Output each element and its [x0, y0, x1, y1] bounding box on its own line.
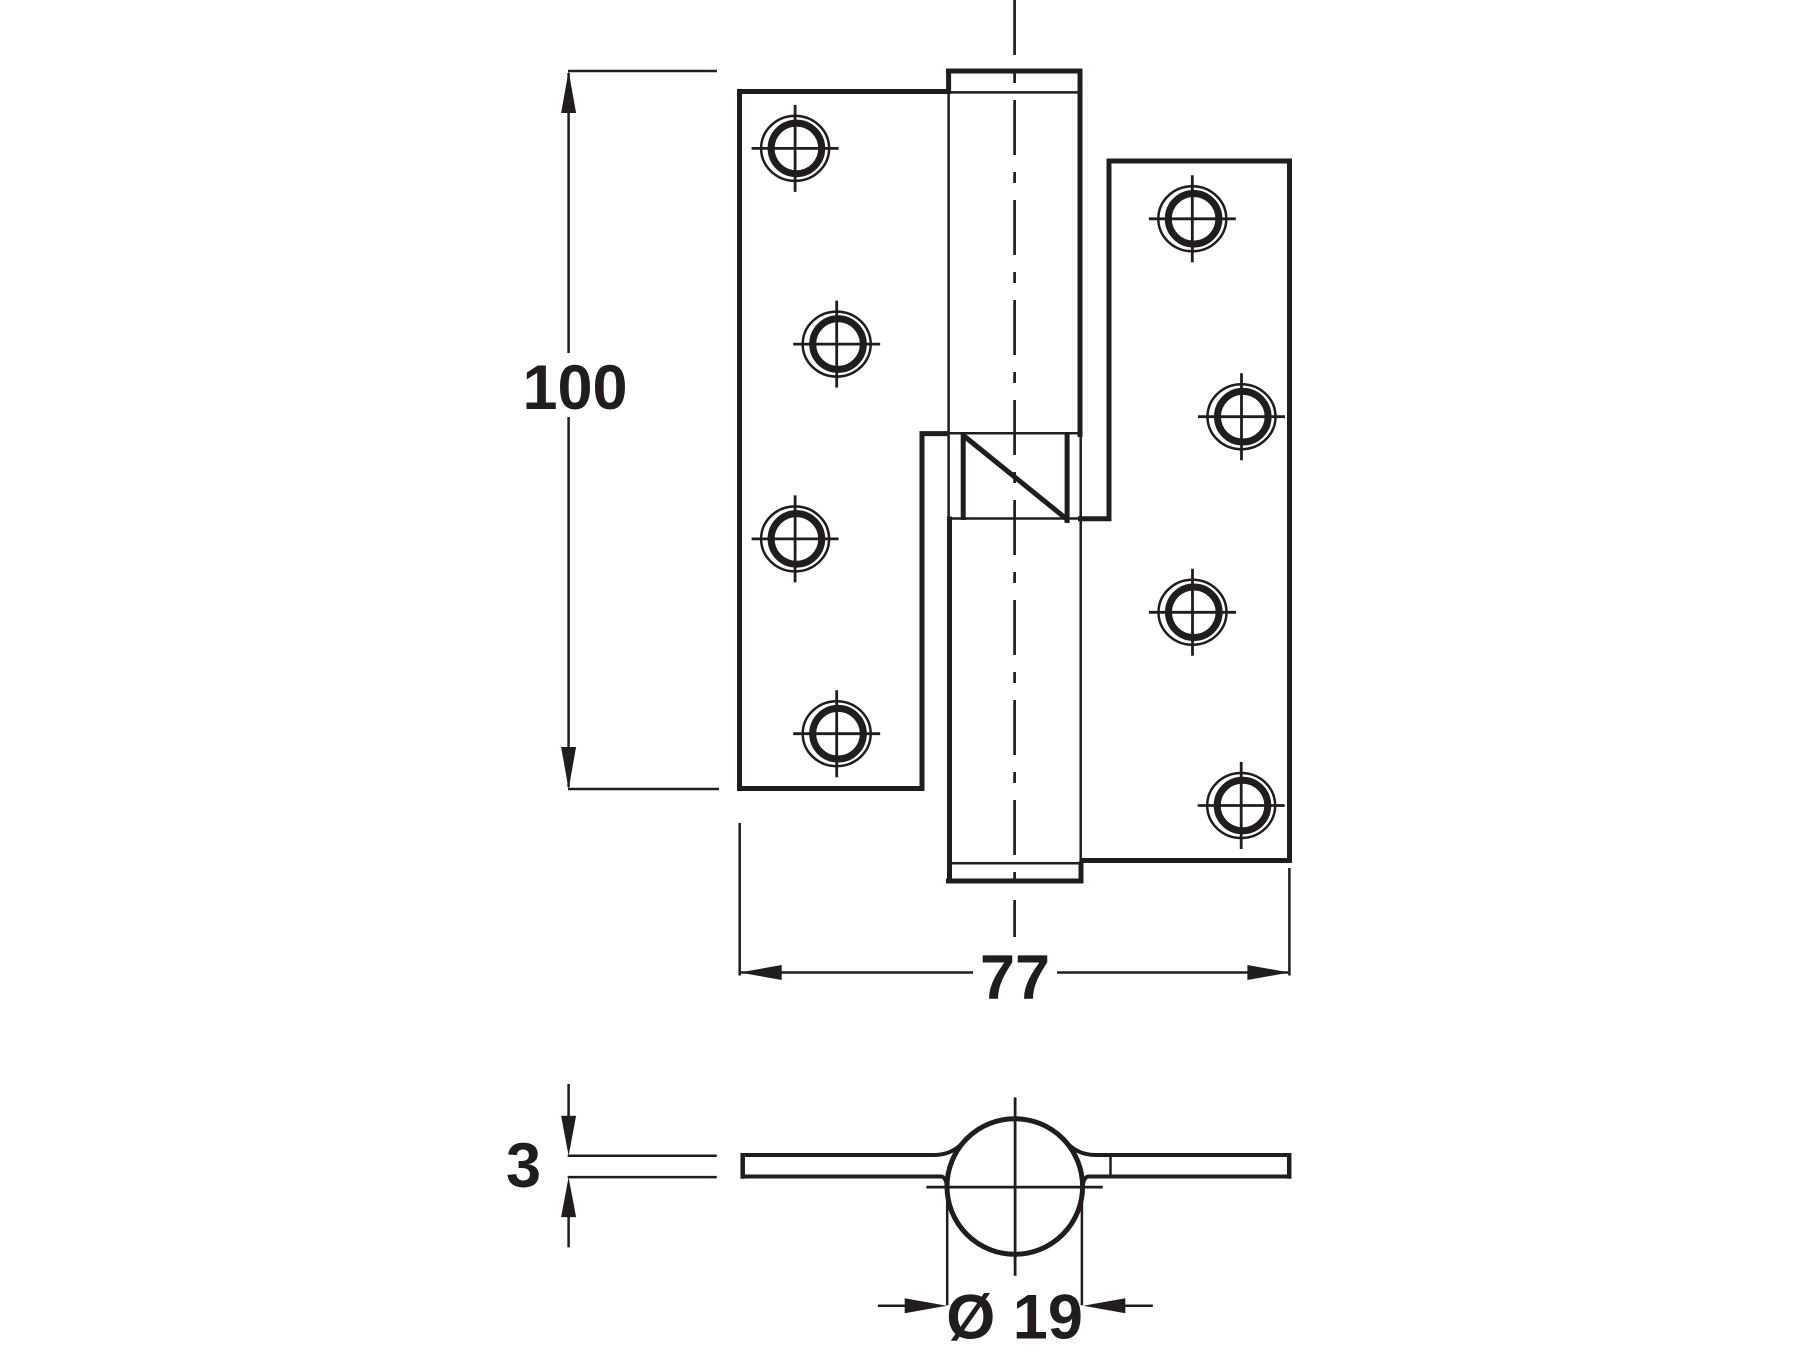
dim 19 arrow right-pointing: [905, 1298, 947, 1313]
screw hole R1: [1149, 175, 1236, 262]
dim 100 extension line bottom: [568, 788, 719, 791]
screw hole L2: [793, 301, 880, 388]
bearing box: [949, 433, 1081, 523]
lower knuckle cap: [946, 862, 1082, 884]
lower knuckle body: [947, 517, 952, 884]
section plate right bottom line with fillet: [1082, 1177, 1289, 1191]
dim 19 dimension line left: [878, 1305, 910, 1308]
dim 19 arrow left-pointing: [1083, 1298, 1125, 1313]
svg-text:Ø 19: Ø 19: [946, 1283, 1083, 1350]
dim 100 label: [522, 353, 627, 423]
dim 77 label: [980, 943, 1050, 1013]
right leaf: [1078, 161, 1290, 861]
dim 3 arrow shafts: [567, 1084, 570, 1247]
knuckle section crosshair: [926, 1097, 1102, 1275]
screw hole R3: [1149, 569, 1236, 656]
section plate left bottom line with fillet: [743, 1177, 948, 1191]
section plate joint tick: [1109, 1155, 1112, 1177]
dim 77 extension line right: [1288, 868, 1291, 976]
dim 77 arrow right: [1247, 965, 1289, 980]
dim 3 arrow up: [561, 1177, 576, 1217]
screw hole L3: [752, 495, 839, 582]
dim 100 arrow up: [561, 71, 576, 113]
section plate right top line with fillet: [1066, 1142, 1290, 1156]
svg-text:77: 77: [980, 943, 1050, 1013]
dim 19 extension lines: [947, 1186, 1082, 1305]
dim 100 arrow down: [561, 747, 576, 789]
upper knuckle body: [949, 69, 1081, 863]
dim 77 extension line left: [738, 823, 741, 976]
left leaf: [740, 92, 951, 789]
dim 100 dimension line: [567, 73, 570, 787]
dim 3 arrow down: [561, 1116, 576, 1156]
svg-text:100: 100: [522, 353, 627, 423]
screw hole L1: [752, 105, 839, 192]
dim 19 label: [946, 1283, 1083, 1350]
dim 3 extension lines: [568, 1156, 717, 1177]
section plate right end cap: [1287, 1153, 1292, 1179]
section plate left end cap: [740, 1153, 745, 1179]
dim 100 extension line top: [568, 70, 717, 73]
screw hole R4: [1198, 762, 1285, 849]
dim 3 label: [506, 1131, 541, 1201]
screw hole L4: [793, 690, 880, 777]
upper knuckle cap: [946, 69, 1082, 94]
dim 77 dimension line: [741, 971, 1288, 974]
svg-text:3: 3: [506, 1131, 541, 1201]
screw hole R2: [1198, 373, 1285, 460]
knuckle section circle: [947, 1119, 1083, 1255]
dim 19 dimension line right: [1120, 1305, 1153, 1308]
dim 77 arrow left: [740, 965, 782, 980]
section plate left top line with fillet: [743, 1142, 964, 1156]
centerline (pin axis, dash-dot): [1013, 0, 1016, 937]
bearing diagonal: [963, 436, 1066, 520]
